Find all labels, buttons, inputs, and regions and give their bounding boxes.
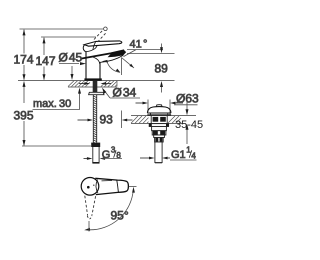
top view: handle [95, 178, 128, 194]
svg-text:395: 395 [14, 109, 34, 123]
label 395 [14, 109, 34, 123]
label G3/8 [102, 145, 123, 161]
drain: extension lines [148, 100, 170, 116]
dimension 35-45 arrows [186, 101, 189, 144]
svg-text:G1: G1 [171, 149, 186, 161]
drain pop-up cap [147, 105, 171, 115]
label 41 degrees with underline and arrow leader [127, 39, 163, 54]
drain tailpipe [155, 138, 164, 164]
dimension 93 [78, 111, 133, 129]
spout underside curve [100, 55, 123, 62]
lever inner edge [93, 42, 96, 50]
svg-text:89: 89 [155, 62, 169, 76]
stream angle construction at spout tip [102, 50, 136, 75]
faucet body side view [82, 41, 126, 81]
svg-text:G: G [102, 149, 111, 161]
body right edge [99, 62, 101, 80]
svg-text:95°: 95° [111, 209, 129, 223]
body top shoulder / spout top edge [82, 50, 124, 58]
drain counter top line [131, 115, 196, 117]
counter hatching left of faucet hole [68, 81, 90, 87]
G1 1/4 arrows [140, 157, 170, 160]
spout body fillet [93, 57, 99, 64]
counter bottom line [68, 86, 117, 88]
counter hatching right of faucet hole [101, 81, 117, 87]
svg-text:35-45: 35-45 [175, 119, 203, 131]
G3/8 diameter arrows [84, 157, 106, 160]
drain counter hatching left [131, 116, 149, 123]
dimension line 395 [23, 81, 26, 146]
lever handle blade [84, 41, 122, 46]
label 147 [36, 54, 56, 68]
label 95 degrees [111, 209, 129, 223]
svg-text:147: 147 [36, 54, 56, 68]
svg-text:max. 30: max. 30 [33, 98, 71, 110]
label Ø45 with leader arrow [59, 51, 87, 66]
label Ø34 with bent leader [102, 86, 140, 100]
body left edge [85, 52, 87, 80]
svg-text:Ø45: Ø45 [59, 51, 83, 65]
label G1 1/4 [170, 145, 197, 161]
lever front face [83, 45, 85, 52]
Ø34 hole arrows [79, 82, 111, 85]
mounting washer [89, 92, 104, 94]
spout tip wedge [108, 50, 127, 57]
svg-text:174: 174 [14, 53, 34, 67]
lever underside hook [86, 46, 98, 52]
drain body below counter [149, 124, 168, 138]
top view: extension line at handle tip [129, 185, 137, 187]
label 93 [100, 113, 114, 127]
spout outlet extension line (89 top) [127, 53, 175, 55]
G3/8 nipple tube [92, 147, 99, 164]
dimension 89 arrows outside [160, 81, 163, 93]
dimension line 174 [23, 29, 26, 80]
hose coupling block [91, 143, 100, 147]
extension line hose end (395 bottom) [22, 145, 91, 147]
95 degree swing arc [84, 187, 135, 231]
label 89 [155, 62, 169, 76]
threaded shank below counter [93, 81, 98, 144]
drain counter hatching right [168, 116, 181, 123]
top view: faucet base circle [81, 178, 99, 196]
leader arrow down to counter at x=72 [71, 66, 74, 80]
raised lever dashed outline [94, 27, 107, 42]
label Ø63 [174, 92, 199, 106]
rotated handle centerline [88, 221, 90, 232]
counter top line [18, 80, 175, 82]
rotated handle dashed outline [85, 196, 96, 219]
label max. 30 with leader arrow up to counter underside [33, 88, 82, 110]
extension line top (174 level) [20, 28, 104, 30]
extension line (147 level) [41, 36, 96, 38]
dimension line 147 [43, 37, 46, 80]
svg-text:4: 4 [191, 152, 196, 161]
svg-text:Ø34: Ø34 [113, 86, 137, 100]
label 174 [14, 53, 34, 67]
svg-text:93: 93 [100, 113, 114, 127]
base flange on counter [84, 78, 101, 80]
label 35-45 [175, 119, 203, 131]
svg-text:Ø63: Ø63 [176, 92, 199, 106]
drain counter bottom line [131, 123, 184, 125]
svg-text:41°: 41° [130, 39, 148, 51]
drain body in hole [151, 116, 167, 124]
drain: Ø63 arrows [136, 102, 184, 105]
